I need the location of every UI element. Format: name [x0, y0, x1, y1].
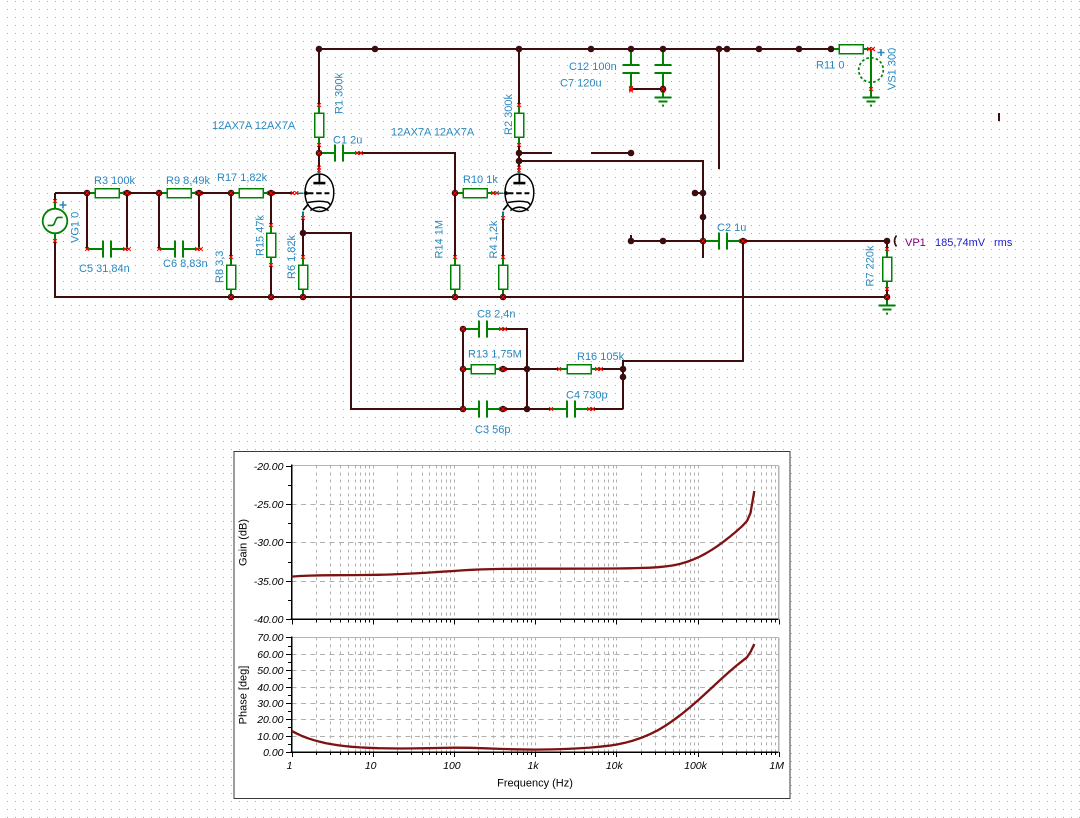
- svg-text:Gain (dB): Gain (dB): [238, 519, 250, 566]
- wire C12 to C7 bottom: [631, 88, 663, 90]
- wire: [198, 193, 200, 249]
- junction: [884, 238, 891, 245]
- wire anode U2 to C2: [519, 161, 703, 241]
- svg-text:VP1: VP1: [905, 237, 926, 249]
- junction: [268, 190, 275, 197]
- wire: [126, 193, 128, 249]
- svg-text:10.00: 10.00: [257, 731, 283, 743]
- capacitor C7 (120u): [655, 49, 672, 92]
- junction: [740, 238, 747, 245]
- triode U2 (12AX7A): [495, 166, 534, 220]
- capacitor C12 (100n): [623, 49, 640, 92]
- junction: [516, 46, 523, 53]
- wire to C2: [631, 240, 703, 242]
- wire C2 to output node VP1: [743, 241, 887, 249]
- svg-text:Phase [deg]: Phase [deg]: [238, 666, 250, 725]
- wire: [158, 193, 160, 249]
- wire R1 to top rail: [318, 49, 320, 105]
- junction: [660, 46, 667, 53]
- svg-text:R7 220k: R7 220k: [865, 245, 877, 286]
- resistor R13 (1,75M): [461, 365, 507, 374]
- junction: [628, 238, 635, 245]
- capacitor C2 (1u): [701, 233, 747, 250]
- wire: [127, 192, 159, 194]
- svg-text:12AX7A 12AX7A: 12AX7A 12AX7A: [391, 127, 475, 139]
- svg-text:-30.00: -30.00: [254, 537, 284, 549]
- svg-text:-25.00: -25.00: [254, 499, 284, 511]
- gain grid lines: [292, 505, 779, 737]
- wire to R14: [454, 193, 456, 257]
- junction: [724, 46, 731, 53]
- svg-text:R16 105k: R16 105k: [577, 351, 625, 363]
- junction: [700, 238, 707, 245]
- wire R7 to ground rail: [886, 289, 888, 297]
- svg-text:100: 100: [443, 760, 461, 772]
- junction: [716, 46, 723, 53]
- svg-text:C5 31,84n: C5 31,84n: [79, 263, 130, 275]
- svg-text:R13 1,75M: R13 1,75M: [468, 349, 522, 361]
- wire: [55, 192, 87, 194]
- junction: [452, 294, 459, 301]
- resistor R9 (8,49k): [157, 189, 203, 198]
- svg-text:-35.00: -35.00: [254, 576, 284, 588]
- capacitor C4 (730p): [549, 401, 595, 418]
- resistor R1 (300k): [315, 103, 324, 147]
- svg-text:R3 100k: R3 100k: [94, 175, 135, 187]
- svg-text:R6 1,82k: R6 1,82k: [286, 234, 298, 279]
- svg-text:R10 1k: R10 1k: [463, 174, 498, 186]
- svg-text:R11 0: R11 0: [816, 60, 845, 72]
- junction: [884, 294, 891, 301]
- svg-text:R14 1M: R14 1M: [434, 220, 446, 259]
- wire: [503, 408, 527, 410]
- junction: [460, 406, 467, 413]
- voltmeter VP1: [895, 236, 897, 247]
- svg-text:VS1 300: VS1 300: [887, 48, 899, 90]
- junction: [124, 190, 131, 197]
- junction: [516, 150, 523, 157]
- wire R2 to top rail: [518, 49, 520, 105]
- junction: [756, 46, 763, 53]
- resistor R15 (47k): [267, 223, 276, 267]
- svg-text:60.00: 60.00: [257, 649, 283, 661]
- wire: [199, 192, 231, 194]
- wire VG1 plus to input node: [54, 193, 56, 201]
- svg-text:C8 2,4n: C8 2,4n: [477, 309, 516, 321]
- wire bottom ground rail: [55, 241, 887, 297]
- svg-text:1M: 1M: [769, 760, 784, 772]
- resistor R14 (1M): [451, 255, 460, 299]
- svg-text:20.00: 20.00: [256, 714, 283, 726]
- junction: [700, 214, 707, 221]
- svg-text:10: 10: [365, 760, 377, 772]
- phase plot frame: [292, 636, 779, 638]
- wire to grid of U1: [271, 192, 294, 194]
- wire supply drop: [718, 49, 720, 169]
- gain curve: [292, 491, 755, 577]
- voltage generator VG1 (0): [43, 199, 68, 243]
- capacitor C1 (2u): [317, 145, 363, 162]
- junction: [660, 86, 667, 93]
- resistor R17 (1,82k): [229, 189, 275, 198]
- triode U1 (12AX7A): [291, 166, 334, 220]
- wire cathode U1 to R6: [302, 219, 304, 257]
- junction: [228, 190, 235, 197]
- svg-text:C4 730p: C4 730p: [566, 390, 608, 402]
- junction: [620, 374, 627, 381]
- svg-text:100k: 100k: [684, 760, 708, 772]
- wire left feedback column: [462, 329, 464, 409]
- resistor R3 (100k): [85, 189, 131, 198]
- svg-text:C2 1u: C2 1u: [717, 222, 746, 234]
- junction: [516, 158, 523, 165]
- svg-text:70.00: 70.00: [257, 632, 283, 644]
- wire stub below C2: [702, 241, 704, 258]
- junction: [196, 190, 203, 197]
- junction: [300, 230, 307, 237]
- wire to C4: [527, 408, 551, 410]
- Bode plot panel: [234, 452, 790, 799]
- svg-text:R2 300k: R2 300k: [503, 94, 515, 135]
- capacitor C6 (8,83n): [157, 241, 203, 258]
- junction: [268, 294, 275, 301]
- junction: [700, 190, 707, 197]
- resistor R7 (220k): [883, 247, 892, 291]
- wire stub at node: [695, 192, 703, 194]
- svg-text:C3 56p: C3 56p: [475, 424, 510, 436]
- svg-text:40.00: 40.00: [257, 682, 283, 694]
- resistor R6 (1,82k): [299, 255, 308, 299]
- junction: [620, 366, 627, 373]
- axis ticks: [286, 467, 780, 758]
- wire stub from anode U2 node: [519, 152, 552, 154]
- svg-text:-40.00: -40.00: [254, 614, 284, 626]
- resistor R2 (300k): [515, 103, 524, 147]
- phase curve: [292, 644, 755, 750]
- svg-text:50.00: 50.00: [257, 665, 283, 677]
- svg-text:R9 8,49k: R9 8,49k: [166, 175, 211, 187]
- svg-text:1: 1: [287, 760, 293, 772]
- junction: [460, 326, 467, 333]
- ground: [863, 89, 880, 107]
- svg-text:0.00: 0.00: [263, 747, 284, 759]
- junction: [500, 366, 507, 373]
- junction: [452, 190, 459, 197]
- svg-text:12AX7A 12AX7A: 12AX7A 12AX7A: [212, 120, 296, 132]
- svg-text:185,74mV: 185,74mV: [935, 237, 986, 249]
- wire stub segment: [591, 152, 631, 154]
- junction: [588, 46, 595, 53]
- junction: [524, 366, 531, 373]
- wire feedback from output: [623, 241, 743, 409]
- junction: [500, 294, 507, 301]
- wire C4 to feedback corner: [591, 408, 623, 410]
- junction: [300, 294, 307, 301]
- svg-text:10k: 10k: [606, 760, 624, 772]
- wire top supply rail: [319, 48, 831, 50]
- gain plot frame: [292, 465, 779, 467]
- svg-text:C1 2u: C1 2u: [333, 135, 362, 147]
- svg-text:1k: 1k: [528, 760, 540, 772]
- svg-text:-20.00: -20.00: [254, 461, 284, 473]
- junction: [628, 46, 635, 53]
- svg-text:R1 300k: R1 300k: [334, 73, 346, 114]
- junction: [524, 406, 531, 413]
- resistor R16 (105k): [557, 365, 603, 374]
- svg-text:C12 100n: C12 100n: [569, 61, 617, 73]
- junction: [228, 294, 235, 301]
- svg-text:C7 120u: C7 120u: [560, 78, 602, 90]
- capacitor C8 (2,4n): [461, 321, 507, 338]
- wire R15 to ground rail: [270, 265, 272, 297]
- junction: [156, 190, 163, 197]
- wire: [503, 368, 527, 370]
- wire stub above C2 line: [630, 235, 632, 241]
- wire stub (floating): [998, 113, 1000, 121]
- ground: [655, 89, 672, 107]
- wire C1 to R10: [359, 153, 455, 193]
- wire cathode U2 to R4: [502, 219, 504, 257]
- junction: [372, 46, 379, 53]
- svg-text:Frequency (Hz): Frequency (Hz): [497, 778, 573, 790]
- capacitor C3 (56p): [461, 401, 507, 418]
- resistor R4 (1,2k): [499, 255, 508, 299]
- frequency axis labels: [287, 760, 785, 772]
- svg-text:R17 1,82k: R17 1,82k: [217, 172, 268, 184]
- svg-text:C6 8,83n: C6 8,83n: [163, 258, 208, 270]
- wire anode U2 node: [518, 145, 520, 169]
- voltage source VS1 (300): [859, 47, 885, 91]
- junction: [692, 190, 699, 197]
- junction: [828, 46, 835, 53]
- svg-text:R8 3,3: R8 3,3: [214, 251, 226, 283]
- junction: [796, 46, 803, 53]
- wire R16 to feedback: [599, 368, 623, 370]
- wire to R8: [230, 193, 232, 257]
- wire: [86, 193, 88, 249]
- junction: [316, 46, 323, 53]
- junction: [660, 238, 667, 245]
- svg-text:R4 1,2k: R4 1,2k: [488, 220, 500, 258]
- junction: [500, 406, 507, 413]
- resistor R11 (0): [829, 45, 875, 54]
- svg-text:30.00: 30.00: [257, 698, 283, 710]
- ground: [879, 297, 896, 315]
- wire to R15: [270, 193, 272, 225]
- log grid lines: [317, 466, 776, 753]
- junction: [628, 150, 635, 157]
- wire C8 right to C3/C4 node: [503, 329, 527, 409]
- svg-text:rms: rms: [994, 237, 1013, 249]
- junction: [316, 150, 323, 157]
- resistor R10 (1k): [453, 189, 499, 198]
- resistor R8 (3,3): [227, 255, 236, 299]
- gain axis labels: [254, 461, 284, 759]
- wire R13 to R16: [527, 368, 559, 370]
- junction: [460, 366, 467, 373]
- wire feedback from cathode U1: [303, 233, 463, 409]
- pin marks: [85, 87, 889, 411]
- junction: [84, 190, 91, 197]
- svg-text:VG1 0: VG1 0: [70, 212, 82, 243]
- capacitor C5 (31,84n): [85, 241, 131, 258]
- wire anode U1 node: [318, 145, 320, 169]
- svg-text:R15 47k: R15 47k: [255, 215, 267, 256]
